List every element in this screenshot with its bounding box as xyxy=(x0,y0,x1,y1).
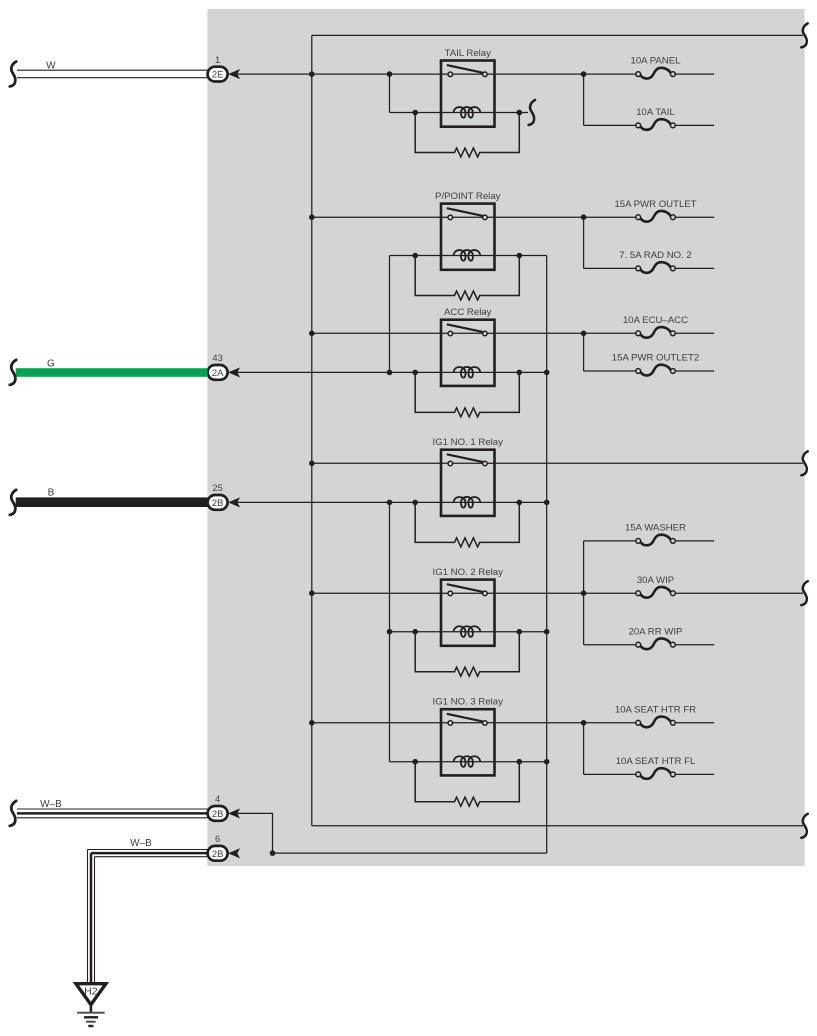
fuse 7. 5A RAD NO. 2 xyxy=(584,262,715,273)
svg-text:2B: 2B xyxy=(212,497,223,508)
wire TAIL switch row xyxy=(237,73,584,75)
svg-text:6: 6 xyxy=(215,833,220,844)
svg-text:2B: 2B xyxy=(212,848,223,859)
resistor ACC relay shunt xyxy=(415,372,519,417)
relay IG1NO2 body xyxy=(441,580,495,646)
junction resistor right P/POINT xyxy=(517,253,523,259)
junction coil bus / IG1NO2 coil row xyxy=(544,629,550,635)
wire IG1 NO.3 coil row xyxy=(390,761,547,763)
svg-text:G: G xyxy=(47,359,55,370)
junction fuse branch xyxy=(581,214,587,220)
ground bar 2 xyxy=(84,1016,98,1018)
junction resistor right ACC xyxy=(517,370,523,376)
wire left bus vertical xyxy=(311,35,313,825)
wire right coil bus vertical xyxy=(546,256,548,854)
break symbol top-right xyxy=(801,23,807,47)
relay block panel (gray background) xyxy=(207,9,804,866)
svg-text:10A PANEL: 10A PANEL xyxy=(631,56,682,67)
ground H2 triangle xyxy=(76,984,106,1005)
junction left bus / TAIL row xyxy=(309,71,315,77)
break symbol W-B wire xyxy=(10,801,16,826)
svg-text:43: 43 xyxy=(212,352,222,363)
ground bar 4 xyxy=(88,1025,93,1027)
wire P/POINT-ACC coil feed vertical xyxy=(389,256,391,373)
svg-text:10A SEAT HTR FL: 10A SEAT HTR FL xyxy=(616,756,696,767)
relay TAIL coil xyxy=(454,107,481,118)
wire IG1 NO.2 coil row xyxy=(390,631,547,633)
junction resistor left IG1NO3 xyxy=(412,759,418,765)
svg-text:2A: 2A xyxy=(212,367,224,378)
wire P/POINT switch row xyxy=(312,216,584,218)
svg-text:W: W xyxy=(46,60,56,71)
junction fuse branch xyxy=(581,71,587,77)
svg-text:10A SEAT HTR FR: 10A SEAT HTR FR xyxy=(615,704,696,715)
junction resistor left IG1NO1 xyxy=(412,500,418,506)
wire IG relays coil feed vertical xyxy=(389,502,391,761)
svg-text:IG1 NO. 1 Relay: IG1 NO. 1 Relay xyxy=(433,437,504,448)
wire P/POINT coil row xyxy=(390,255,547,257)
junction resistor left TAIL xyxy=(412,110,418,116)
svg-text:7. 5A RAD NO. 2: 7. 5A RAD NO. 2 xyxy=(619,250,692,261)
wire fuse branch vertical xyxy=(583,541,585,645)
svg-text:25: 25 xyxy=(212,482,222,493)
wire TAIL coil row xyxy=(390,112,529,114)
wire TAIL coil feed vertical xyxy=(389,74,391,112)
svg-text:15A PWR OUTLET: 15A PWR OUTLET xyxy=(614,199,696,210)
connector 2B pin 4 xyxy=(208,806,241,821)
svg-text:IG1 NO. 3 Relay: IG1 NO. 3 Relay xyxy=(433,697,504,708)
wire top bus xyxy=(312,34,803,36)
wire W-B to 2B-4 xyxy=(17,808,208,810)
relay IG1NO1 coil xyxy=(454,497,481,508)
junction left bus / P/POINT row xyxy=(309,214,315,220)
wire W-B vertical to ground H2 xyxy=(87,850,89,983)
junction fuse branch xyxy=(581,720,587,726)
connector 2B pin 25 xyxy=(208,495,241,510)
relay ACC coil xyxy=(454,367,481,378)
fuse 15A PWR OUTLET xyxy=(584,211,715,222)
wire 2B-4 jumper to ground row xyxy=(237,813,273,853)
fuse 10A ECU–ACC xyxy=(584,327,715,338)
junction feed on ACC coil row xyxy=(387,370,393,376)
svg-text:H2: H2 xyxy=(84,986,98,998)
connector 2E pin 1 xyxy=(208,67,241,82)
wire fuse branch vertical xyxy=(583,217,585,268)
junction ground row xyxy=(270,850,276,856)
svg-text:TAIL Relay: TAIL Relay xyxy=(445,48,492,59)
relay IG1NO3 coil xyxy=(454,756,481,767)
svg-text:15A PWR OUTLET2: 15A PWR OUTLET2 xyxy=(612,353,699,364)
wire IG1NO2 switch row xyxy=(312,592,584,594)
wire B (black) to 2B-25 xyxy=(16,497,208,507)
svg-text:1: 1 xyxy=(215,54,220,65)
fuse 20A RR WIP xyxy=(584,638,715,649)
junction fuse branch xyxy=(581,331,587,337)
resistor IG1NO2 relay shunt xyxy=(415,632,519,677)
junction feed on IG1 NO.1 coil row xyxy=(387,500,393,506)
svg-text:ACC Relay: ACC Relay xyxy=(444,307,492,318)
wire IG1 NO.1 coil row (from connector 2B-25) xyxy=(237,501,547,503)
svg-text:W–B: W–B xyxy=(40,799,62,810)
relay ACC body xyxy=(441,320,495,386)
wire ACC switch row xyxy=(312,332,584,334)
fuse 15A WASHER xyxy=(584,535,715,546)
wire ACC coil row (from connector 2A) xyxy=(237,371,547,373)
junction left bus / IG1NO3 row xyxy=(309,720,315,726)
ground bar 1 xyxy=(77,1012,105,1014)
svg-text:2E: 2E xyxy=(212,69,223,80)
break symbol bottom-right xyxy=(801,814,807,838)
fuse 10A TAIL xyxy=(584,119,715,130)
wire IG1NO3 switch row xyxy=(312,722,584,724)
fuse 10A PANEL xyxy=(584,68,715,79)
relay TAIL body xyxy=(441,61,495,127)
fuse 15A PWR OUTLET2 xyxy=(584,365,715,376)
svg-text:10A ECU–ACC: 10A ECU–ACC xyxy=(623,315,688,326)
junction left bus / IG1NO1 row xyxy=(309,461,315,467)
relay P/POINT coil xyxy=(454,250,481,261)
junction resistor right TAIL xyxy=(517,110,523,116)
junction resistor right IG1NO1 xyxy=(517,500,523,506)
wire IG1NO1 switch row xyxy=(312,462,803,464)
junction left bus / ACC row xyxy=(309,331,315,337)
svg-text:P/POINT Relay: P/POINT Relay xyxy=(435,191,501,202)
wire G (green) to 2A-43 xyxy=(16,368,208,377)
junction left bus / IG1NO2 row xyxy=(309,590,315,596)
break symbol B wire xyxy=(10,490,16,515)
svg-text:30A WIP: 30A WIP xyxy=(637,575,674,586)
wire bottom bus xyxy=(312,825,803,827)
junction resistor right IG1NO3 xyxy=(517,759,523,765)
connector 2A pin 43 xyxy=(208,365,241,380)
relay IG1NO2 coil xyxy=(454,626,481,637)
junction coil bus / ACC coil row xyxy=(544,370,550,376)
ground bar 3 xyxy=(86,1021,96,1023)
svg-text:W–B: W–B xyxy=(130,838,152,849)
break symbol TAIL coil wire xyxy=(529,100,535,125)
resistor IG1NO1 relay shunt xyxy=(415,502,519,547)
relay IG1NO3 body xyxy=(441,709,495,775)
junction fuse branch xyxy=(581,590,587,596)
wire fuse branch vertical xyxy=(583,74,585,125)
svg-text:20A RR WIP: 20A RR WIP xyxy=(629,626,683,637)
junction feed on IG1 NO.2 coil row xyxy=(387,629,393,635)
svg-text:IG1 NO. 2 Relay: IG1 NO. 2 Relay xyxy=(433,567,504,578)
wire fuse branch vertical xyxy=(583,723,585,775)
relay P/POINT body xyxy=(441,204,495,270)
wire W (white) to 2E-1 xyxy=(17,69,208,71)
fuse 30A WIP xyxy=(584,587,803,598)
resistor TAIL relay shunt xyxy=(415,113,519,158)
connector 2B pin 6 xyxy=(208,846,241,861)
svg-text:4: 4 xyxy=(215,793,220,804)
junction resistor left P/POINT xyxy=(412,253,418,259)
wire W-B to 2B-6 (horizontal) xyxy=(88,849,208,851)
break symbol G wire xyxy=(10,360,16,385)
junction resistor left ACC xyxy=(412,370,418,376)
junction resistor left IG1NO2 xyxy=(412,629,418,635)
wire fuse branch vertical xyxy=(583,333,585,371)
resistor IG1NO3 relay shunt xyxy=(415,762,519,807)
fuse 10A SEAT HTR FL xyxy=(584,768,715,779)
svg-text:10A TAIL: 10A TAIL xyxy=(636,107,675,118)
svg-text:15A WASHER: 15A WASHER xyxy=(625,523,686,534)
ground stem xyxy=(90,1006,93,1013)
break symbol 30A WIP output right edge xyxy=(801,581,807,605)
junction TAIL coil right xyxy=(517,110,523,116)
relay IG1NO1 body xyxy=(441,450,495,516)
svg-text:B: B xyxy=(48,488,55,499)
break symbol IG1 NO.1 output right edge xyxy=(801,451,807,475)
svg-text:2B: 2B xyxy=(212,808,223,819)
wire ground return to connector 2B-6 xyxy=(273,852,547,854)
junction coil bus / IG1NO3 coil row xyxy=(544,759,550,765)
junction resistor right IG1NO2 xyxy=(517,629,523,635)
junction TAIL feed xyxy=(387,71,393,77)
resistor P/POINT relay shunt xyxy=(415,256,519,301)
break symbol W wire xyxy=(10,62,16,87)
fuse 10A SEAT HTR FR xyxy=(584,717,715,728)
junction coil bus / IG1NO1 coil row xyxy=(544,500,550,506)
